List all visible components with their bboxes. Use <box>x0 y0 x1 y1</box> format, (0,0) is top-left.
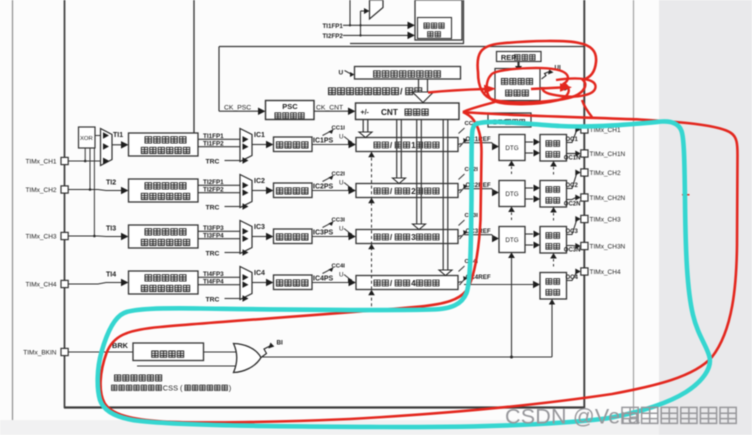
top box right edge <box>463 0 465 44</box>
red plus mark <box>682 191 690 199</box>
IC4 input mux <box>240 267 252 300</box>
CNT counter box <box>356 103 460 120</box>
repetition counter box <box>495 69 540 101</box>
OR gate <box>234 344 262 373</box>
wire OC1REF to DTG1 <box>464 142 492 144</box>
svg-text:CNT: CNT <box>381 108 398 117</box>
svg-text:TRC: TRC <box>206 159 220 166</box>
svg-text:OC1REF: OC1REF <box>466 136 491 143</box>
up arrow into output control 2 bottom <box>550 207 557 213</box>
up arrow into DTG1 bottom <box>508 161 515 167</box>
wire OC1 to pin TIMx_CH1 <box>567 130 578 143</box>
svg-text:TI1: TI1 <box>113 132 123 139</box>
capture/compare register 4 box <box>356 276 458 290</box>
mid region rectangle left edge <box>218 47 220 112</box>
BI squiggle arrow and label <box>261 346 270 358</box>
hollow arrow auto-reload to CNT <box>418 79 420 92</box>
hollow arrow CNT to capture register 3 <box>416 120 418 224</box>
channel 4 left pin TIMx_CH4 <box>61 280 68 287</box>
svg-text:OC3: OC3 <box>566 229 579 235</box>
wire pin CH4 to filter4 <box>69 283 122 285</box>
wire OC3REF to DTG3 <box>464 234 492 236</box>
svg-text:CC3I: CC3I <box>332 218 346 224</box>
up arrow into output control 3 bottom <box>550 253 557 259</box>
wire TI1FP1 to encoder <box>343 24 408 26</box>
svg-text:IC2: IC2 <box>254 178 265 185</box>
right pin TIMx_CH4 <box>581 268 588 275</box>
wire OC2 to pin TIMx_CH2 <box>567 173 578 189</box>
wire TI1 mux to filter1 <box>112 144 122 146</box>
svg-text:CC2I: CC2I <box>332 172 346 178</box>
PSC prescaler box <box>266 101 315 120</box>
svg-text:OC1N: OC1N <box>564 155 581 161</box>
wire IC3PS to capture register <box>312 236 349 238</box>
DTG box row 1 <box>499 135 525 161</box>
wire BKIN to polarity box <box>69 351 134 353</box>
U event arrow to border <box>541 87 564 89</box>
svg-text:DTG: DTG <box>505 191 518 198</box>
svg-text:OC2N: OC2N <box>564 201 581 207</box>
svg-text:+/-: +/- <box>361 109 370 116</box>
svg-text:IC1: IC1 <box>254 132 265 139</box>
up arrow into DTG2 bottom <box>508 207 515 213</box>
svg-text:CC4I: CC4I <box>332 264 346 270</box>
wire XOR output to TI1 mux <box>95 135 101 137</box>
svg-text:TRC: TRC <box>206 251 220 258</box>
encoder interface inner box with label <box>418 18 452 39</box>
wire OC2N to pin TIMx_CH2N <box>567 198 577 200</box>
svg-text:TI3: TI3 <box>106 226 116 233</box>
brake vertical to DTG3 <box>511 258 513 357</box>
hollow arrow CNT to capture register 2 <box>396 120 398 178</box>
svg-text:IC1PS: IC1PS <box>313 137 334 144</box>
wire IC4PS to capture register <box>312 282 349 284</box>
capture/compare register 1 box <box>356 138 458 152</box>
IC prescaler box row 2 <box>274 183 313 198</box>
brake vertical to output control 4 <box>551 304 553 357</box>
right pin TIMx_CH2N <box>581 194 588 201</box>
svg-text:1: 1 <box>411 141 416 150</box>
input filter & edge detector box 4 <box>129 271 199 294</box>
TI1 input mux <box>101 129 113 166</box>
wire OC3 to pin TIMx_CH3 <box>567 219 578 235</box>
red annotation: inner loop around repetition counter <box>487 68 569 104</box>
top section divider vertical <box>193 0 195 133</box>
wire polarity to OR gate <box>204 351 237 353</box>
right pin TIMx_CH1 <box>581 126 588 133</box>
wire CK_PSC into PSC <box>219 110 258 112</box>
svg-text:TRC: TRC <box>206 297 220 304</box>
wire OC3N to pin TIMx_CH3N <box>567 245 577 248</box>
hollow arrow CNT to capture register 1 <box>362 120 364 132</box>
svg-text:3: 3 <box>411 233 416 242</box>
wire OC2REF to DTG2 <box>464 188 492 190</box>
svg-text:IC4PS: IC4PS <box>313 275 334 282</box>
IC2 input mux <box>240 175 252 208</box>
output control box row 1 <box>540 135 567 162</box>
svg-text:U: U <box>339 70 344 77</box>
svg-text:IC4: IC4 <box>254 270 265 277</box>
event squiggle after register 3 <box>458 236 462 237</box>
cyan annotation: big loop <box>98 121 710 427</box>
wire TI2FP2 to encoder <box>343 34 408 36</box>
wire up-branch to banner with arrow <box>360 11 362 35</box>
arrow REP to repetition counter <box>517 62 519 67</box>
wire pin CH1 to mux <box>69 160 101 162</box>
wire IC2PS to capture register <box>312 190 349 192</box>
output control box row 2 <box>540 181 567 208</box>
svg-text:2: 2 <box>411 187 416 196</box>
label from clock controller CSS <box>112 385 118 390</box>
auto-reload register box <box>355 67 461 80</box>
pin TIMx_BKIN <box>61 348 68 355</box>
svg-text:TI2FP2: TI2FP2 <box>323 33 344 40</box>
svg-text:4: 4 <box>411 279 416 288</box>
top box bottom edge <box>350 43 464 45</box>
svg-text:U: U <box>339 134 343 141</box>
right pin TIMx_CH3N <box>581 242 588 249</box>
red annotation: outer blob around REP registers <box>478 41 597 102</box>
red annotation: lasso tail with arrow <box>543 78 596 96</box>
DTG box row 2 <box>499 181 525 207</box>
right pin TIMx_CH3 <box>581 215 588 222</box>
mid region rectangle top edge <box>219 46 584 48</box>
svg-text:TRC: TRC <box>206 205 220 212</box>
svg-text:OC2: OC2 <box>566 183 579 189</box>
right pin TIMx_CH2 <box>581 169 588 176</box>
IC prescaler box row 4 <box>274 275 313 290</box>
arrows DTG3 to output control <box>525 233 533 235</box>
svg-text:TIMx_CH1: TIMx_CH1 <box>25 159 56 166</box>
wire OC1N to pin TIMx_CH1N <box>567 153 577 155</box>
dashed U event line with up arrows <box>371 152 373 308</box>
wire OC4 to pin TIMx_CH4 <box>567 272 578 281</box>
svg-text:U: U <box>339 180 343 187</box>
DTG box row 3 <box>499 227 525 253</box>
capture/compare register 3 box <box>356 230 458 244</box>
wire OC4REF long to output control 4 <box>464 284 533 286</box>
wire IC4 to prescaler <box>252 282 266 284</box>
svg-text:TI2: TI2 <box>106 180 116 187</box>
DTG register box <box>488 113 531 127</box>
clock-select banner polygon <box>370 0 384 19</box>
outer thin right border <box>633 0 635 412</box>
svg-text:CC1I: CC1I <box>332 126 346 132</box>
input filter & edge detector box 3 <box>129 225 199 248</box>
svg-text:XOR: XOR <box>80 136 93 142</box>
wire IC3 to prescaler <box>252 236 266 238</box>
input filter & edge detector box 2 <box>129 179 199 202</box>
svg-text:TIMx_CH3: TIMx_CH3 <box>25 234 56 241</box>
red annotation: connector from blob down to big loop <box>582 100 592 117</box>
diagram left border <box>64 0 66 408</box>
channel 3 left pin TIMx_CH3 <box>61 232 68 239</box>
diagram right border (pins line) <box>583 0 585 408</box>
output control box row 4 <box>540 273 567 300</box>
hollow arrow CNT to capture register 4 <box>442 120 444 270</box>
polarity select box <box>133 343 204 361</box>
svg-text:PSC: PSC <box>282 102 298 111</box>
wire CK_CNT into CNT <box>314 110 349 112</box>
output control box row 3 <box>540 227 567 254</box>
svg-text:U: U <box>339 272 343 279</box>
wire TI1FP1 feed from top <box>349 0 351 25</box>
event squiggle after register 2 <box>458 190 462 191</box>
wire IC2 to prescaler <box>252 190 266 192</box>
red annotation: arrow from stop text to circle <box>428 89 485 93</box>
IC prescaler box row 3 <box>274 229 313 244</box>
label clock failure event <box>115 375 121 381</box>
svg-text:CSDN @Vera: CSDN @Vera <box>505 404 640 428</box>
wire pin CH3 to filter3 <box>69 235 122 238</box>
arrows DTG1 to output control <box>525 141 533 143</box>
input filter & edge detector box 1 <box>129 133 199 156</box>
up arrow into output control 1 bottom <box>550 161 557 167</box>
svg-text:TIMx_CH3N: TIMx_CH3N <box>590 244 626 251</box>
IC3 input mux <box>240 221 252 254</box>
IC prescaler box row 1 <box>274 137 313 152</box>
REP register box <box>497 52 542 62</box>
svg-text:OC1: OC1 <box>566 137 579 143</box>
outer thin left border <box>12 0 14 420</box>
arrows DTG2 to output control <box>525 187 533 189</box>
channel 1 left pin TIMx_CH1 <box>61 157 68 164</box>
svg-text:TI4: TI4 <box>106 272 116 279</box>
right pin TIMx_CH1N <box>581 150 588 157</box>
svg-text:TIMx_CH2N: TIMx_CH2N <box>590 195 626 202</box>
event squiggle after register 1 <box>458 144 462 145</box>
svg-text:IC3: IC3 <box>254 224 265 231</box>
svg-text:BRK: BRK <box>112 341 129 350</box>
up arrow into DTG3 bottom <box>508 253 515 259</box>
svg-text:OC3N: OC3N <box>564 247 581 253</box>
svg-text:IC2PS: IC2PS <box>313 183 334 190</box>
label stop-clear-updown <box>329 88 336 95</box>
svg-text:): ) <box>229 383 231 392</box>
svg-text:DTG: DTG <box>505 237 518 244</box>
svg-text:TIMx_CH2: TIMx_CH2 <box>25 187 56 194</box>
svg-text:OC4: OC4 <box>566 275 579 281</box>
svg-text:TIMx_CH2: TIMx_CH2 <box>590 170 621 177</box>
svg-text:TIMx_CH4: TIMx_CH4 <box>25 282 56 289</box>
svg-text:REP: REP <box>501 53 516 62</box>
svg-text:CSS (: CSS ( <box>163 383 183 392</box>
diagram bottom border <box>64 406 585 408</box>
svg-text:TIMx_CH1N: TIMx_CH1N <box>590 151 626 158</box>
wire clock-failure into OR gate <box>137 365 235 367</box>
event squiggle after register 4 <box>458 282 462 283</box>
svg-text:BI: BI <box>277 340 284 347</box>
long brake wire to output controls <box>261 356 552 358</box>
IC1 input mux <box>240 129 252 162</box>
svg-text:DTG: DTG <box>505 145 518 152</box>
capture/compare register 2 box <box>356 184 458 198</box>
wire pin CH2 to filter2 <box>69 190 122 191</box>
XOR input verticals from channel pins <box>84 148 86 161</box>
svg-text:TIMx_CH3: TIMx_CH3 <box>590 217 621 224</box>
svg-text:U: U <box>339 226 343 233</box>
channel 2 left pin TIMx_CH2 <box>61 186 68 193</box>
svg-text:TIMx_BKIN: TIMx_BKIN <box>23 350 57 357</box>
svg-text:IC3PS: IC3PS <box>313 229 334 236</box>
red annotation: big loop around outputs and bottom <box>101 112 738 422</box>
wire IC1 to prescaler <box>252 144 266 146</box>
svg-text:CK_CNT: CK_CNT <box>316 104 343 111</box>
XOR box <box>79 127 96 148</box>
encoder interface outer box <box>415 0 462 40</box>
svg-text:CK_PSC: CK_PSC <box>224 104 251 111</box>
wire IC1PS to capture register <box>312 144 349 146</box>
svg-text:TI1FP1: TI1FP1 <box>323 23 344 30</box>
svg-text:TIMx_CH4: TIMx_CH4 <box>590 269 621 276</box>
